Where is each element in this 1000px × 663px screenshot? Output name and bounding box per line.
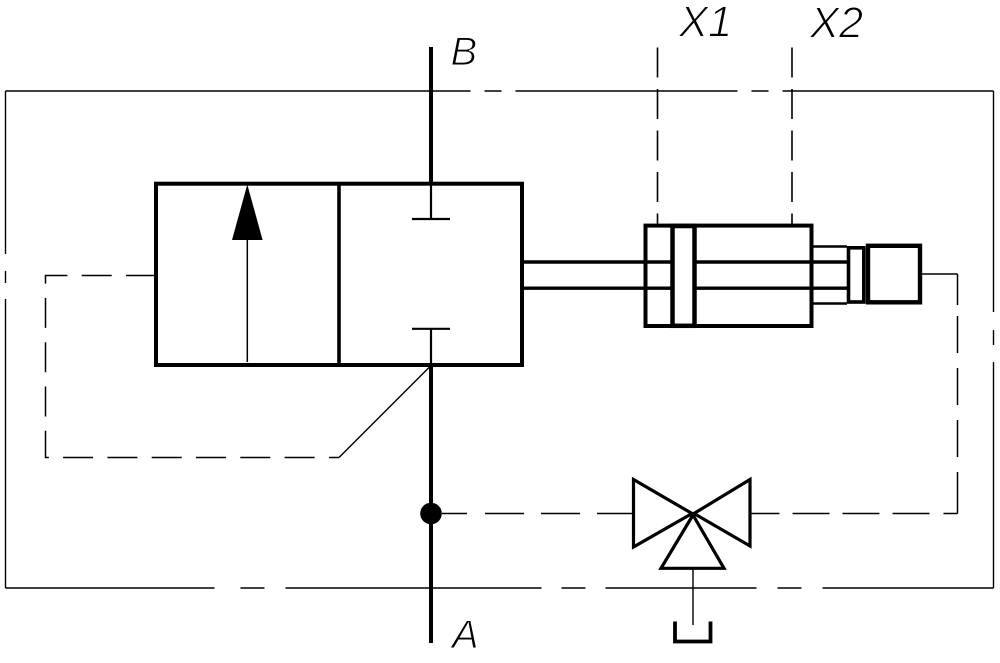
- actuator piston: [673, 226, 695, 326]
- svg-text:A: A: [450, 613, 479, 657]
- actuator plate: [849, 248, 864, 302]
- throttle valve left triangle: [634, 480, 693, 548]
- enclosure border bottom: [6, 587, 994, 589]
- pilot dashed vertical right: [957, 274, 959, 514]
- piston rod: [522, 262, 847, 288]
- actuator barrel: [646, 226, 812, 326]
- enclosure border left: [5, 91, 7, 588]
- tank symbol: [675, 622, 711, 642]
- enclosure border top: [6, 90, 994, 92]
- svg-text:B: B: [451, 30, 478, 74]
- svg-text:X1: X1: [678, 0, 732, 47]
- drain triangle: [661, 515, 724, 568]
- pilot line X1: [657, 48, 659, 227]
- pilot dashed from junction to throttle: [442, 513, 633, 515]
- port line A: [429, 366, 433, 643]
- pilot dashed horizontal right: [751, 513, 958, 515]
- tank stem: [692, 568, 694, 625]
- flow arrow: [232, 185, 263, 363]
- pilot line X2: [791, 48, 793, 227]
- throttle valve right triangle: [694, 480, 750, 547]
- closed port symbol bottom: [412, 329, 450, 364]
- svg-text:X2: X2: [809, 0, 863, 48]
- valve body (2/2 directional valve): [156, 184, 522, 365]
- actuator end cap: [868, 246, 920, 302]
- enclosure border right: [993, 91, 995, 588]
- closed port symbol top: [412, 185, 450, 219]
- actuator sub-box: [812, 247, 848, 304]
- pilot dashed line left (from valve port to loop): [46, 276, 340, 458]
- port line B: [429, 47, 433, 184]
- junction dot: [420, 503, 442, 525]
- diagonal pilot link: [339, 367, 430, 458]
- link from cap to pilot: [922, 273, 958, 275]
